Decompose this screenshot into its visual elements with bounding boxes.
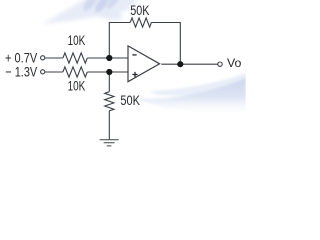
resistor R2 10K (bottom input) <box>63 67 87 77</box>
svg-text:Vo: Vo <box>227 56 242 70</box>
watermark: faint upper swoosh <box>150 73 246 96</box>
wire: R1 to inverting node <box>87 57 128 59</box>
wire: bottom input lead <box>45 71 63 73</box>
wire: R2 to non-inverting node <box>87 71 128 73</box>
terminal: Vo output <box>218 62 222 66</box>
wire: non-inverting node down to R4 <box>108 72 110 92</box>
resistor R1 10K (top input) <box>63 53 87 63</box>
wire: top input lead from terminal to resistor <box>45 57 63 59</box>
node: non-inverting input junction <box>106 69 112 75</box>
svg-text:50K: 50K <box>120 93 140 108</box>
wire: R4 to ground <box>108 111 110 140</box>
svg-text:10K: 10K <box>68 79 86 94</box>
wire: feedback right lead + right vertical to output <box>151 23 180 65</box>
svg-text:10K: 10K <box>68 33 86 48</box>
wire: feedback left vertical + top lead <box>109 23 130 59</box>
watermark: streak 2 <box>93 0 113 14</box>
svg-text:50K: 50K <box>130 3 149 18</box>
resistor R4 50K (to ground) <box>105 92 114 111</box>
terminal: +0.7V input <box>41 56 45 60</box>
op-amp plus sign <box>132 72 137 77</box>
node: output junction <box>177 61 183 67</box>
terminal: -1.3V input <box>41 70 45 74</box>
node: inverting input junction <box>106 55 112 61</box>
watermark: main swoosh <box>132 78 246 113</box>
op-amp minus sign <box>132 54 136 56</box>
ground <box>100 140 119 146</box>
resistor R3 50K (feedback) <box>130 18 151 27</box>
watermark: streak 1 <box>81 0 100 13</box>
watermark: bottom-right swoosh <box>132 73 246 113</box>
watermark: pale band top-left <box>42 0 136 24</box>
wire: op-amp output to terminal <box>161 63 217 65</box>
svg-text:− 1.3V: − 1.3V <box>5 64 37 80</box>
op-amp U1 <box>128 46 160 82</box>
watermark: streak 3 <box>105 0 122 11</box>
